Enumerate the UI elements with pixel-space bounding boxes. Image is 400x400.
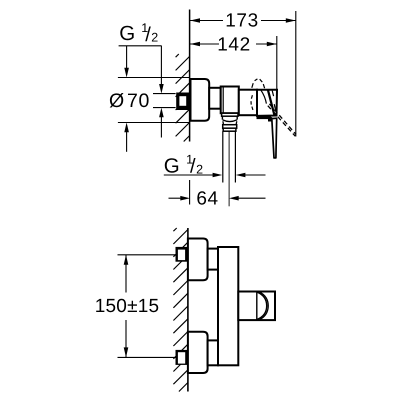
svg-text:2: 2 (196, 162, 203, 176)
svg-text:2: 2 (151, 31, 158, 45)
svg-text:Ø: Ø (109, 90, 124, 112)
svg-text:G: G (119, 22, 135, 45)
svg-text:173: 173 (225, 11, 259, 32)
svg-text:/: / (190, 156, 196, 178)
svg-text:/: / (145, 24, 151, 46)
svg-text:142: 142 (217, 35, 251, 56)
svg-text:64: 64 (196, 189, 218, 210)
svg-text:150±15: 150±15 (95, 296, 159, 317)
svg-text:70: 70 (127, 90, 150, 112)
svg-text:G: G (164, 154, 180, 177)
